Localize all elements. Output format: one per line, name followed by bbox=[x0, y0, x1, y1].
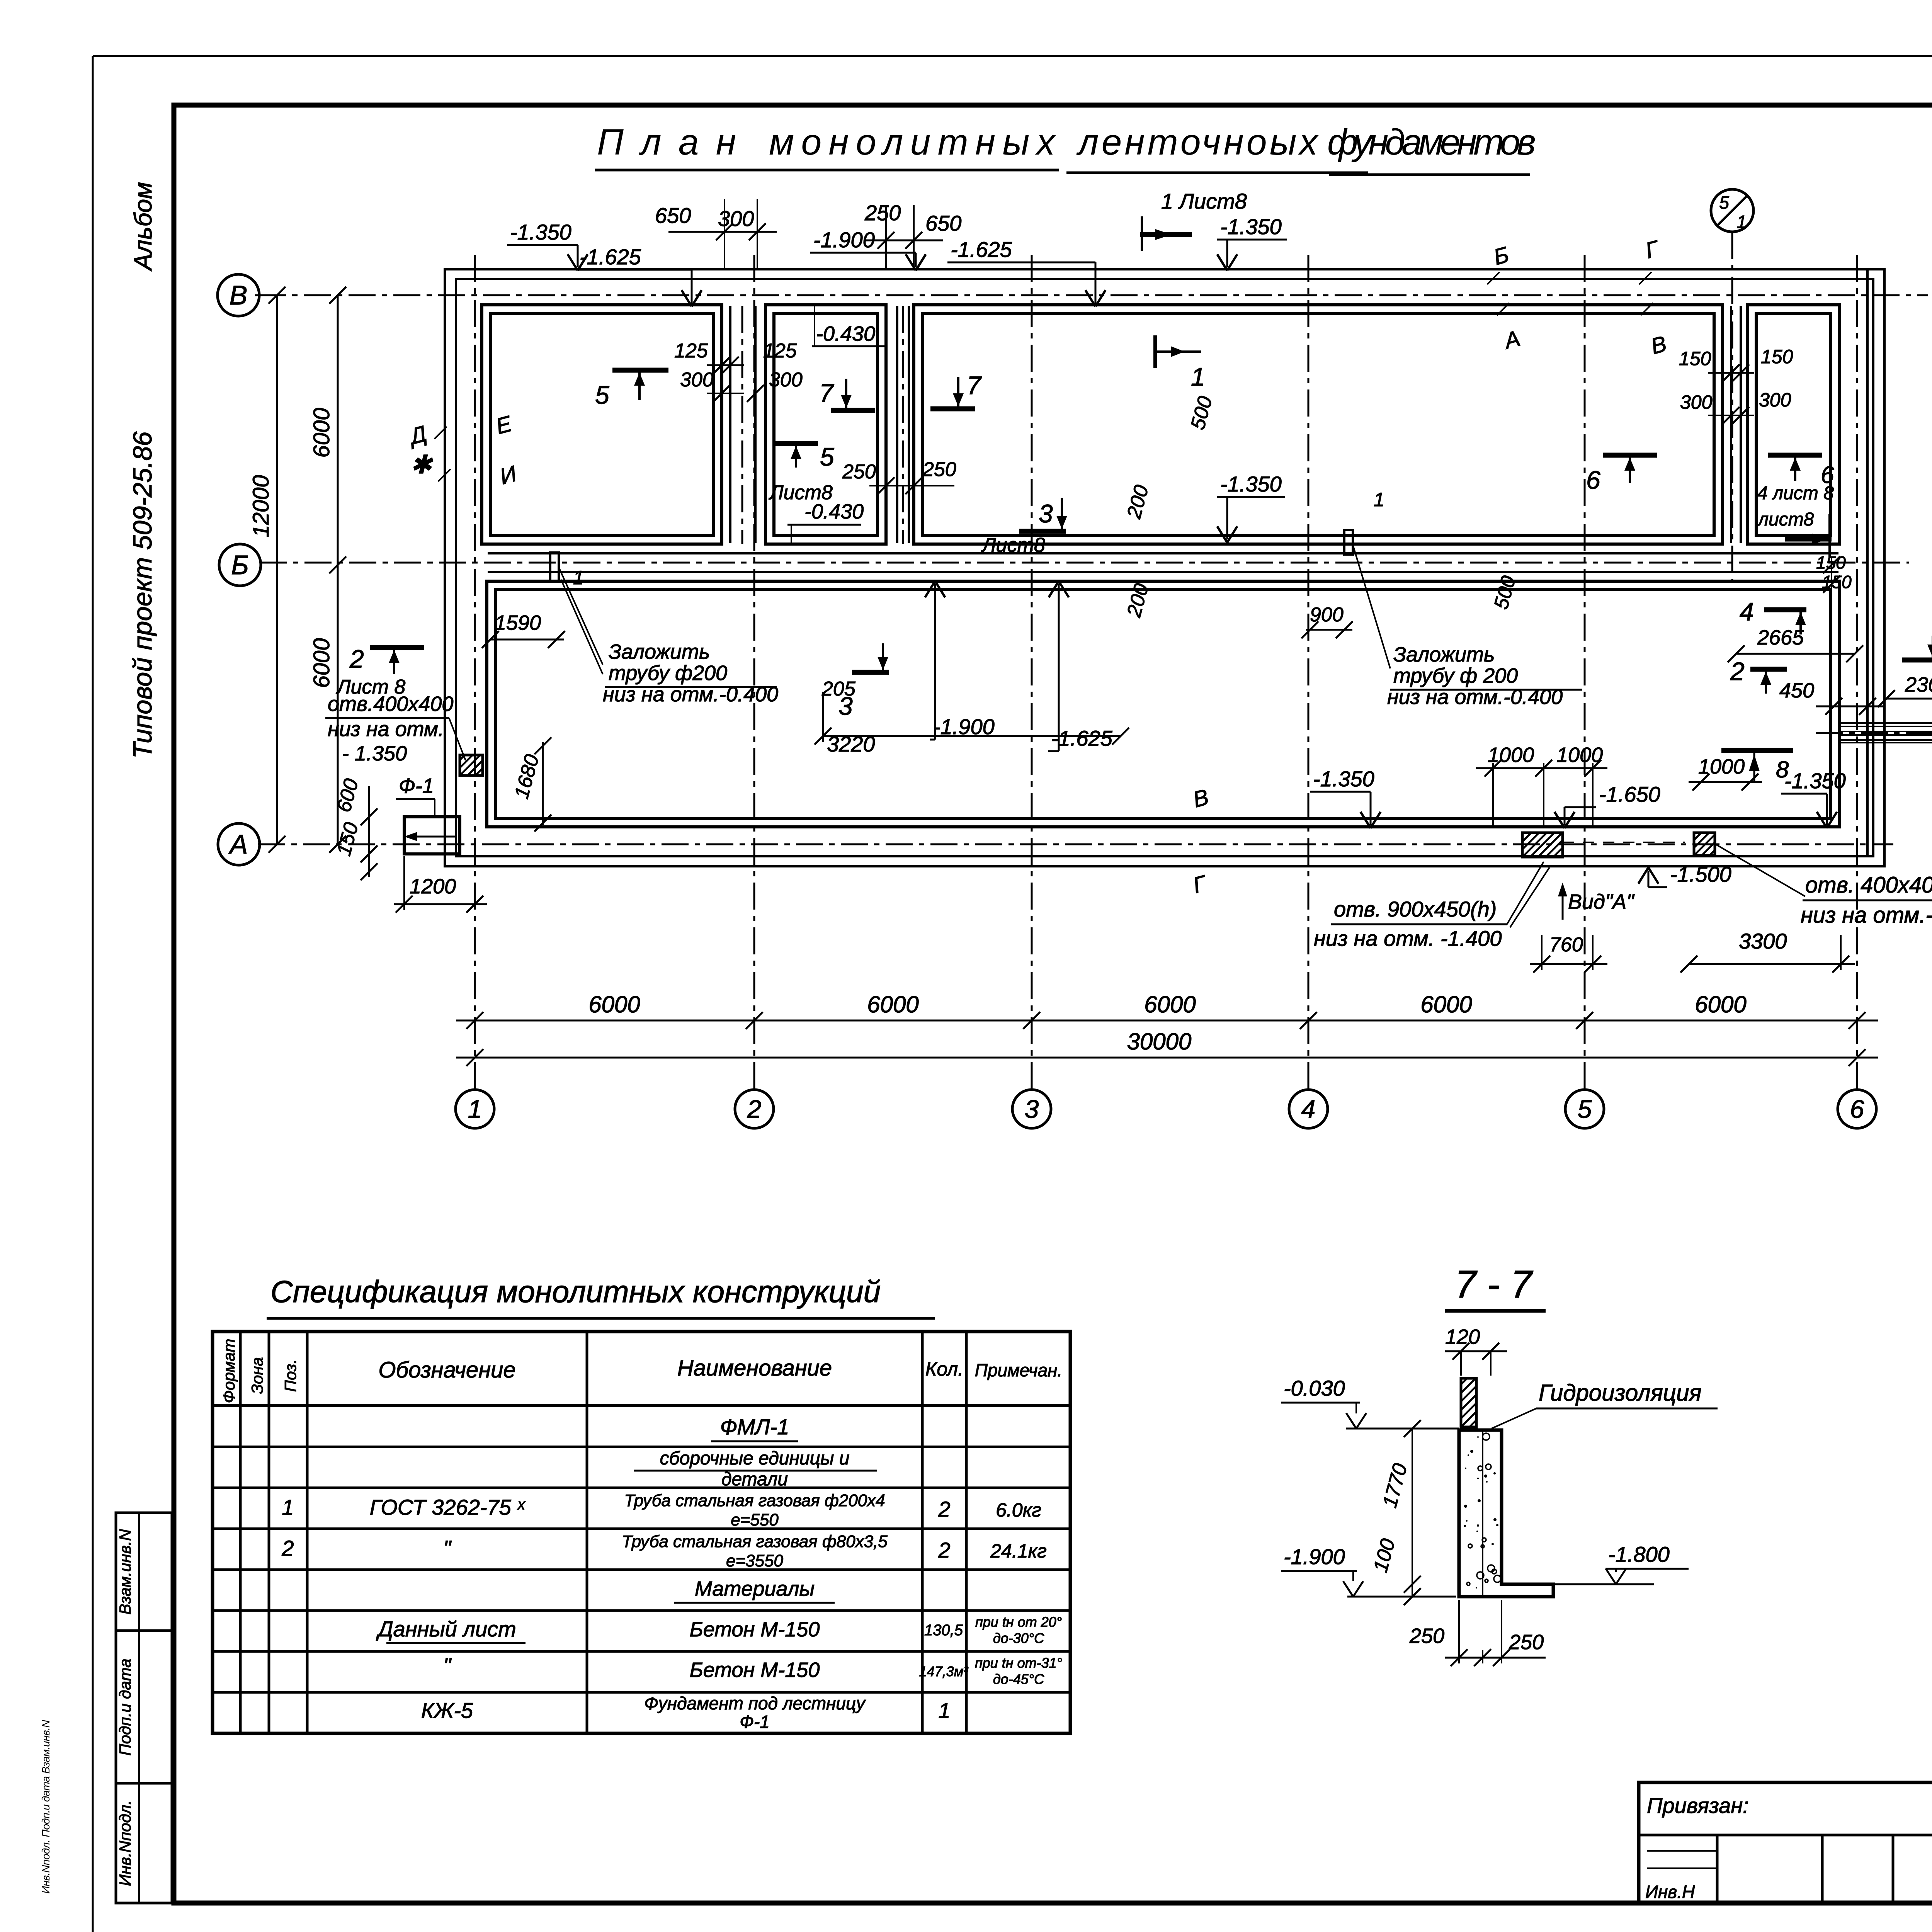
svg-text:Ф-1: Ф-1 bbox=[740, 1712, 769, 1732]
svg-text:4 лист 8: 4 лист 8 bbox=[1757, 483, 1834, 503]
svg-text:650: 650 bbox=[925, 211, 961, 235]
svg-text:6000: 6000 bbox=[309, 408, 334, 457]
svg-text:Наименование: Наименование bbox=[677, 1355, 832, 1381]
svg-text:трубу ф200: трубу ф200 bbox=[609, 662, 727, 685]
svg-text:Ф-1: Ф-1 bbox=[399, 774, 434, 798]
svg-text:-1.625: -1.625 bbox=[1051, 726, 1113, 750]
svg-text:монолитных: монолитных bbox=[769, 122, 1056, 163]
svg-text:до-45°C: до-45°C bbox=[993, 1671, 1044, 1687]
svg-text:300: 300 bbox=[769, 369, 803, 391]
svg-text:Данный лист: Данный лист bbox=[376, 1617, 516, 1641]
svg-text:24.1кг: 24.1кг bbox=[990, 1540, 1047, 1562]
svg-text:низ на отм.: низ на отм. bbox=[328, 718, 444, 741]
svg-text:4: 4 bbox=[1740, 597, 1754, 626]
svg-text:Фундамент под лестницу: Фундамент под лестницу bbox=[644, 1693, 866, 1713]
svg-text:Вид"А": Вид"А" bbox=[1568, 890, 1635, 913]
svg-text:2: 2 bbox=[938, 1538, 950, 1562]
svg-text:ГОСТ 3262-75 ˣ: ГОСТ 3262-75 ˣ bbox=[370, 1495, 526, 1519]
svg-text:отв. 400х400: отв. 400х400 bbox=[1805, 872, 1932, 898]
svg-text:3: 3 bbox=[1039, 499, 1053, 528]
svg-text:- 1.350: - 1.350 bbox=[342, 742, 407, 765]
svg-text:В: В bbox=[230, 280, 248, 310]
svg-text:5: 5 bbox=[1719, 192, 1729, 213]
svg-text:6000: 6000 bbox=[867, 992, 918, 1017]
svg-text:-1.500: -1.500 bbox=[1670, 862, 1731, 886]
svg-text:-1.800: -1.800 bbox=[1608, 1542, 1670, 1566]
svg-text:3300: 3300 bbox=[1739, 929, 1787, 953]
svg-text:КЖ-5: КЖ-5 bbox=[421, 1698, 473, 1723]
svg-text:2: 2 bbox=[938, 1497, 950, 1521]
svg-text:-1.900: -1.900 bbox=[933, 714, 995, 739]
svg-text:до-30°C: до-30°C bbox=[993, 1630, 1044, 1646]
svg-text:4: 4 bbox=[1301, 1095, 1316, 1123]
svg-text:3: 3 bbox=[838, 692, 853, 720]
svg-text:6000: 6000 bbox=[309, 638, 334, 688]
svg-text:125: 125 bbox=[763, 340, 797, 362]
svg-text:-1.650: -1.650 bbox=[1599, 782, 1660, 806]
svg-text:30000: 30000 bbox=[1127, 1029, 1192, 1054]
svg-text:3: 3 bbox=[1025, 1095, 1039, 1123]
svg-text:ФМЛ-1: ФМЛ-1 bbox=[720, 1415, 789, 1439]
svg-text:Формат: Формат bbox=[220, 1339, 238, 1403]
svg-text:-0.430: -0.430 bbox=[804, 500, 864, 523]
svg-text:-1.900: -1.900 bbox=[1284, 1544, 1345, 1569]
svg-text:1: 1 bbox=[1374, 489, 1384, 510]
svg-text:2300: 2300 bbox=[1905, 673, 1932, 696]
svg-text:Труба стальная газовая ф200х4: Труба стальная газовая ф200х4 bbox=[624, 1491, 885, 1510]
svg-text:Взам.инв.N: Взам.инв.N bbox=[116, 1529, 134, 1615]
svg-text:125: 125 bbox=[674, 340, 708, 362]
svg-text:6000: 6000 bbox=[1144, 992, 1196, 1017]
svg-text:1200: 1200 bbox=[410, 875, 456, 898]
svg-text:250: 250 bbox=[1409, 1624, 1444, 1648]
svg-text:250: 250 bbox=[922, 458, 956, 481]
svg-text:7 - 7: 7 - 7 bbox=[1455, 1263, 1533, 1306]
svg-text:низ на отм.-1350: низ на отм.-1350 bbox=[1801, 903, 1932, 928]
svg-text:при tн от 20°: при tн от 20° bbox=[975, 1614, 1062, 1630]
svg-text:Лист8: Лист8 bbox=[981, 534, 1045, 556]
svg-text:Труба стальная газовая ф80х3,5: Труба стальная газовая ф80х3,5 bbox=[622, 1532, 888, 1551]
svg-text:1: 1 bbox=[468, 1095, 482, 1123]
svg-text:1: 1 bbox=[282, 1495, 294, 1519]
svg-text:760: 760 bbox=[1549, 934, 1583, 956]
svg-text:1: 1 bbox=[1736, 212, 1747, 232]
svg-text:ленточноых: ленточноых bbox=[1076, 122, 1319, 163]
svg-text:6000: 6000 bbox=[1420, 992, 1472, 1017]
svg-text:1: 1 bbox=[938, 1698, 950, 1723]
svg-text:250: 250 bbox=[842, 461, 876, 483]
svg-text:Б: Б bbox=[231, 550, 249, 580]
svg-text:-1.350: -1.350 bbox=[1220, 472, 1282, 496]
svg-text:А: А bbox=[228, 829, 248, 859]
svg-text:Бетон М-150: Бетон М-150 bbox=[690, 1618, 820, 1641]
svg-text:": " bbox=[443, 1653, 452, 1678]
svg-text:1000: 1000 bbox=[1488, 743, 1534, 767]
svg-text:детали: детали bbox=[721, 1469, 788, 1490]
svg-text:6: 6 bbox=[1586, 466, 1600, 494]
svg-text:1000: 1000 bbox=[1698, 755, 1745, 778]
svg-text:Обозначение: Обозначение bbox=[378, 1357, 515, 1383]
svg-text:-1.900: -1.900 bbox=[813, 228, 875, 252]
svg-text:Бетон М-150: Бетон М-150 bbox=[690, 1658, 820, 1682]
svg-text:отв. 900х450(h): отв. 900х450(h) bbox=[1334, 897, 1497, 921]
svg-text:лист8: лист8 bbox=[1757, 509, 1814, 530]
svg-text:Типовой проект 509-25.86: Типовой проект 509-25.86 bbox=[128, 432, 157, 759]
svg-text:2: 2 bbox=[281, 1536, 294, 1560]
svg-text:2665: 2665 bbox=[1757, 626, 1804, 649]
svg-text:отв.400х400: отв.400х400 bbox=[328, 692, 453, 716]
svg-text:-1.350: -1.350 bbox=[1313, 767, 1374, 791]
svg-text:Привязан:: Привязан: bbox=[1647, 1793, 1749, 1818]
svg-text:1590: 1590 bbox=[495, 611, 541, 634]
svg-text:✱: ✱ bbox=[410, 450, 433, 479]
svg-text:-0.030: -0.030 bbox=[1284, 1376, 1345, 1400]
svg-text:Гидроизоляция: Гидроизоляция bbox=[1539, 1380, 1702, 1406]
svg-text:130,5: 130,5 bbox=[924, 1622, 963, 1639]
svg-text:1: 1 bbox=[1191, 362, 1205, 391]
svg-text:300: 300 bbox=[718, 206, 754, 231]
svg-text:6000: 6000 bbox=[588, 992, 640, 1017]
svg-text:5: 5 bbox=[595, 381, 609, 409]
svg-text:-1.350: -1.350 bbox=[510, 220, 571, 244]
svg-text:6: 6 bbox=[1850, 1095, 1864, 1123]
svg-text:5: 5 bbox=[1578, 1095, 1592, 1123]
svg-text:Материалы: Материалы bbox=[695, 1577, 815, 1600]
svg-text:150: 150 bbox=[1679, 348, 1711, 369]
svg-text:900: 900 bbox=[1310, 604, 1344, 626]
svg-text:Заложить: Заложить bbox=[1393, 643, 1495, 666]
svg-text:147,3м³: 147,3м³ bbox=[919, 1663, 969, 1679]
svg-text:Инв.Nподл. Подп.и дата Взам.ин: Инв.Nподл. Подп.и дата Взам.инв.N bbox=[40, 1719, 52, 1894]
svg-text:300: 300 bbox=[680, 369, 714, 391]
svg-text:2: 2 bbox=[1730, 657, 1745, 685]
svg-text:6000: 6000 bbox=[1695, 992, 1746, 1017]
svg-text:450: 450 bbox=[1779, 679, 1814, 702]
svg-text:12000: 12000 bbox=[248, 475, 274, 537]
svg-text:-0.430: -0.430 bbox=[816, 322, 875, 345]
svg-text:5: 5 bbox=[820, 442, 834, 471]
svg-text:300: 300 bbox=[1759, 389, 1791, 411]
svg-text:120: 120 bbox=[1445, 1325, 1480, 1349]
svg-text:1 Лист8: 1 Лист8 bbox=[1161, 189, 1247, 213]
svg-text:2: 2 bbox=[349, 645, 364, 673]
svg-text:Заложить: Заложить bbox=[609, 640, 710, 663]
svg-text:7: 7 bbox=[967, 371, 982, 400]
svg-text:1: 1 bbox=[573, 567, 584, 588]
svg-text:250: 250 bbox=[864, 201, 901, 225]
svg-text:при tн от-31°: при tн от-31° bbox=[975, 1655, 1062, 1671]
svg-text:-1.350: -1.350 bbox=[1220, 214, 1282, 239]
svg-text:Спецификация монолитных конс: Спецификация монолитных конструкций bbox=[270, 1274, 881, 1309]
svg-text:Альбом: Альбом bbox=[129, 182, 157, 272]
svg-text:": " bbox=[443, 1536, 452, 1560]
svg-text:7: 7 bbox=[819, 379, 834, 407]
svg-text:фундаментов: фундаментов bbox=[1327, 122, 1536, 163]
svg-text:1000: 1000 bbox=[1556, 743, 1603, 767]
svg-text:Инв.Nподл.: Инв.Nподл. bbox=[116, 1800, 134, 1886]
svg-text:-1.625: -1.625 bbox=[951, 237, 1012, 262]
svg-text:150: 150 bbox=[1761, 346, 1793, 367]
svg-text:-1.350: -1.350 bbox=[1784, 769, 1846, 793]
svg-text:Кол.: Кол. bbox=[925, 1358, 963, 1380]
svg-text:e=3550: e=3550 bbox=[726, 1551, 784, 1570]
svg-text:сборочные единицы и: сборочные единицы и bbox=[660, 1448, 850, 1469]
svg-text:e=550: e=550 bbox=[731, 1510, 779, 1529]
svg-text:Подп.и дата: Подп.и дата bbox=[116, 1658, 134, 1755]
svg-text:Примечан.: Примечан. bbox=[975, 1360, 1063, 1380]
svg-text:Инв.Н: Инв.Н bbox=[1645, 1882, 1695, 1902]
svg-text:2: 2 bbox=[747, 1095, 762, 1123]
svg-text:низ на отм. -1.400: низ на отм. -1.400 bbox=[1314, 926, 1502, 951]
svg-text:Зона: Зона bbox=[248, 1357, 266, 1394]
svg-text:300: 300 bbox=[1680, 391, 1713, 413]
svg-text:-1.625: -1.625 bbox=[580, 245, 641, 269]
svg-text:250: 250 bbox=[1509, 1631, 1544, 1654]
svg-text:6.0кг: 6.0кг bbox=[996, 1499, 1041, 1521]
svg-text:трубу ф 200: трубу ф 200 bbox=[1393, 664, 1518, 687]
svg-text:650: 650 bbox=[655, 203, 691, 228]
svg-text:Поз.: Поз. bbox=[281, 1359, 299, 1392]
